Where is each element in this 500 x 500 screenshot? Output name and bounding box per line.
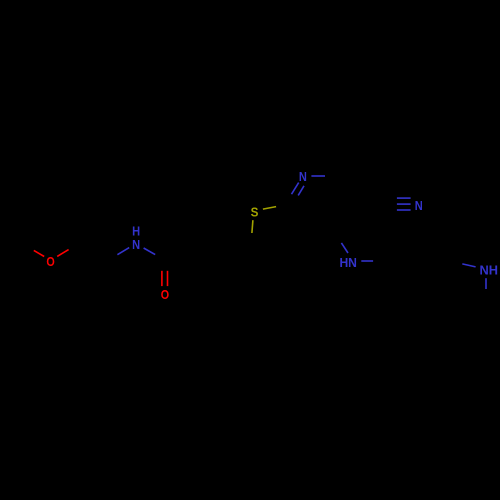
wire N-CH2 nitrogen half — [117, 248, 129, 255]
wire C2-S carbon half — [250, 233, 253, 244]
wire linker HN-C4 nitrogen half — [341, 243, 348, 253]
wire N-Cb carbon half — [485, 289, 487, 300]
wire C=O carbon half — [161, 256, 163, 271]
wire S-C7a sulfur half — [263, 207, 276, 210]
wire chain CH2-C2 — [221, 244, 251, 256]
svg-text:N: N — [299, 169, 307, 184]
wire O-methyl oxygen half — [34, 250, 44, 256]
wire C4-NH carbon half — [335, 233, 342, 243]
wire nitrile triple bond nitrogen halves — [397, 197, 411, 199]
thiophene S yellow bond halves — [252, 207, 276, 233]
wire thiophene C3-C3a — [282, 233, 305, 253]
wire C3a-C7a — [287, 204, 305, 233]
nitrogen blue bond halves — [117, 176, 486, 289]
wire C7a-S carbon half — [276, 204, 287, 207]
wire Ca-N carbon half — [449, 261, 462, 264]
svg-text:S: S — [251, 204, 259, 219]
atom labels — [46, 169, 498, 302]
wire right NH-Ca nitrogen half — [462, 264, 475, 267]
wire C3r-Ca — [414, 247, 449, 261]
wire NH-CH2 carbon half — [373, 260, 386, 262]
svg-text:O: O — [46, 254, 54, 269]
wire CH2-CH2 — [81, 243, 105, 264]
wire pyridine N=C7a nitrogen halves — [292, 183, 299, 195]
svg-text:N: N — [132, 237, 140, 252]
wire methyl-O carbon half — [27, 246, 36, 251]
wire C6-C5 — [339, 176, 356, 205]
wire C=O oxygen halves (double bond) — [161, 271, 163, 286]
wire N-C(=O) nitrogen half — [144, 248, 156, 255]
svg-text:HN: HN — [339, 255, 357, 270]
wire chain CH2-CH2 — [193, 239, 221, 255]
wire pyridine N-C6 nitrogen half — [311, 175, 325, 177]
wire CH2-N carbon half — [105, 255, 118, 264]
wire CH2-C3r — [386, 247, 414, 261]
wire O-CH2 carbon half — [69, 243, 81, 250]
methoxy / carbonyl O red bond halves — [34, 250, 168, 287]
wire N-C(=O) carbon half — [155, 254, 165, 255]
wire C5-C4 — [340, 205, 356, 234]
wire C5-CN — [356, 203, 383, 206]
wire nitrile carbon halves — [383, 197, 397, 199]
wire chain C(=O)-CH2 — [165, 239, 193, 256]
wire C7a=N carbon halves — [287, 194, 292, 204]
invisible carbon skeleton (black on black) — [27, 176, 486, 300]
wire right NH-Cb nitrogen half — [485, 278, 487, 289]
wire S-C2 sulfur half — [252, 220, 253, 233]
svg-text:O: O — [161, 287, 169, 302]
svg-text:N: N — [415, 198, 423, 213]
wire Cb-C3r — [414, 247, 486, 300]
wire thiophene C2-C3 — [251, 244, 282, 254]
wire linker HN-CH2 nitrogen half — [361, 260, 373, 262]
wire N-C6 carbon half — [325, 175, 339, 177]
svg-text:NH: NH — [480, 263, 499, 278]
wire O-CH2 oxygen half — [57, 250, 68, 257]
wire C4-C3a — [305, 233, 340, 234]
